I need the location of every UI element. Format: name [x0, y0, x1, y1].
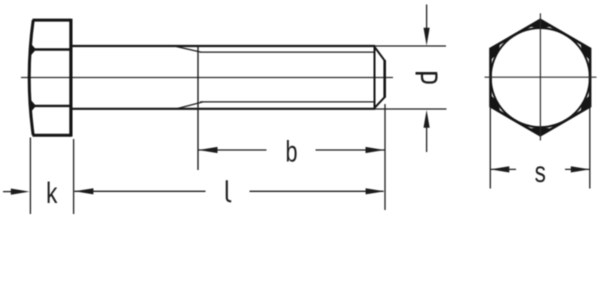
shank top major-diameter line	[72, 45, 375, 47]
svg-text:k: k	[46, 176, 58, 210]
label d (rotated)	[416, 73, 438, 82]
right extension line for b and l	[384, 104, 386, 210]
hexagon corner chamfer wedges	[491, 20, 591, 135]
shank bottom major-diameter line	[72, 108, 375, 110]
s left arrow (points left)	[490, 166, 516, 172]
hex head top edge	[33, 19, 72, 22]
hex head bottom edge	[33, 134, 72, 137]
l dimension line right segment with arrow	[250, 188, 385, 194]
inscribed circle	[491, 28, 590, 127]
svg-text:b: b	[285, 134, 297, 168]
d bottom extension line	[375, 108, 447, 110]
hex head lower face line	[31, 105, 71, 107]
head chamfer wedge upper	[30, 43, 36, 56]
hex head left chamfer arc	[29, 20, 33, 135]
d bottom arrow	[424, 110, 430, 152]
k left extension line	[29, 138, 31, 215]
thread root line top	[200, 51, 375, 53]
k right / l left extension line	[73, 139, 75, 214]
end chamfer diagonal bottom	[375, 97, 385, 108]
svg-text:s: s	[535, 155, 546, 189]
hex vertical centerline	[539, 13, 541, 140]
d top arrow	[424, 5, 430, 46]
bolt axis centerline	[21, 77, 393, 79]
d top extension line	[375, 45, 446, 47]
head chamfer wedge lower	[30, 100, 36, 113]
s right arrow (points right)	[565, 166, 590, 172]
hex head upper face line	[31, 48, 71, 50]
b dimension line left segment with arrow	[199, 147, 267, 153]
s right extension line	[589, 106, 591, 189]
bolt end face	[383, 60, 386, 98]
thread root line bottom	[200, 101, 375, 103]
b dimension line right segment with arrow	[316, 147, 385, 153]
hexagon head end view	[491, 20, 591, 135]
thread start vertical and b left extension line	[197, 46, 199, 170]
hex horizontal centerline	[485, 76, 597, 78]
l left arrow (points left, tip at k extension)	[74, 188, 205, 194]
thread runout diagonal bottom	[177, 102, 203, 109]
end chamfer diagonal top	[375, 47, 385, 61]
thread runout diagonal top	[175, 46, 201, 52]
k outside arrow (points right)	[3, 189, 30, 195]
s left extension line	[489, 106, 491, 189]
label l (with hooked tail)	[227, 180, 231, 201]
thread end vertical	[374, 46, 376, 108]
hex head right edge (bearing face)	[69, 19, 72, 137]
